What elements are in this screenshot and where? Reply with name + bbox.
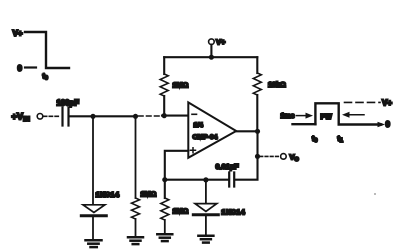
svg-text:V+: V+ <box>13 29 23 38</box>
svg-text:t0: t0 <box>43 74 48 82</box>
svg-text:0.01μF: 0.01μF <box>216 162 240 171</box>
svg-text:1N914: 1N914 <box>96 190 120 199</box>
node C (junction at R2 bottom) <box>162 113 167 118</box>
wire: op-amp output to node D <box>236 130 257 132</box>
node V+ rail junction <box>209 55 214 60</box>
svg-text:100pF: 100pF <box>57 99 80 108</box>
wire: node D down to node E <box>256 131 258 156</box>
wire: + input of op-amp to rail <box>165 151 189 180</box>
svg-text:1N914: 1N914 <box>221 208 245 217</box>
node A (junction after C1) <box>90 114 95 119</box>
resistor R2 1M&#937; (V+ to inverting input) <box>160 57 188 115</box>
svg-text:VO: VO <box>290 152 300 163</box>
svg-text:V+: V+ <box>216 38 226 47</box>
resistor R1 1M&#937; <box>132 190 157 237</box>
op-amp U1 1/4 CMP-04 <box>188 102 236 157</box>
svg-text:10kΩ: 10kΩ <box>268 80 286 89</box>
svg-text:CMP-04: CMP-04 <box>193 134 218 141</box>
diode D1 1N914 <box>81 190 120 239</box>
svg-text:PW: PW <box>321 114 333 121</box>
svg-text:t1: t1 <box>338 136 343 144</box>
dashed V+ level <box>345 101 381 103</box>
node D (output junction) <box>255 129 260 134</box>
arrowhead at baseline right end <box>378 122 386 128</box>
1ms arrow <box>297 115 309 117</box>
output pulse waveform <box>281 99 393 145</box>
wire: V+ rail <box>164 56 257 58</box>
svg-text:0: 0 <box>18 64 23 73</box>
svg-text:1MΩ: 1MΩ <box>141 190 157 199</box>
svg-text:1MΩ: 1MΩ <box>173 81 189 90</box>
wire: node E down and left to C2 <box>235 156 257 179</box>
wire: node B down to R1 <box>135 116 137 198</box>
capacitor C1 100pF <box>57 99 80 126</box>
svg-text:0: 0 <box>386 120 391 129</box>
resistor R3 10k&#937; (V+ to output) <box>253 57 286 131</box>
svg-text:1ms: 1ms <box>281 113 295 120</box>
svg-text:V+: V+ <box>382 99 392 108</box>
diode D2 1N914 <box>193 180 245 235</box>
pulse baseline left <box>293 123 316 125</box>
terminal VO <box>281 152 300 163</box>
ground (R1) <box>128 237 143 244</box>
pulse <box>315 103 381 124</box>
stray speck <box>374 193 376 195</box>
node B (junction at R1 top) <box>133 114 138 119</box>
wire dashed to VO terminal <box>260 155 280 157</box>
input step waveform <box>13 29 70 82</box>
wire: node A down to D1 <box>92 116 94 204</box>
ground (D2) <box>198 236 213 243</box>
svg-text:t0: t0 <box>312 136 317 144</box>
left-pointing arrow at falling edge <box>342 112 350 118</box>
node G (D2 top) <box>203 177 208 182</box>
ground (D1) <box>86 240 102 247</box>
wire: node C to op-amp inverting input <box>162 115 188 117</box>
wire: C1 to inverting input line <box>70 115 137 117</box>
svg-text:+VIN: +VIN <box>12 112 31 124</box>
wire: C2 left plate to + input rail <box>165 179 229 181</box>
terminal V+ supply <box>209 38 226 58</box>
ground (R4) <box>157 234 172 241</box>
wire: +VIN terminal to C1 (dashed) <box>44 115 61 117</box>
node F (R4 top) <box>162 177 167 182</box>
wire dashed segment before node C <box>139 115 162 117</box>
capacitor C2 0.01uF <box>216 162 240 187</box>
svg-text:1MΩ: 1MΩ <box>173 207 189 216</box>
resistor R4 1M&#937; <box>161 180 189 233</box>
node E (VO junction) <box>255 154 260 159</box>
input terminal +VIN <box>12 112 43 124</box>
svg-text:1/4: 1/4 <box>194 122 204 129</box>
